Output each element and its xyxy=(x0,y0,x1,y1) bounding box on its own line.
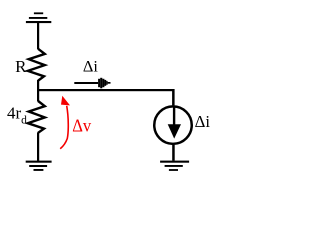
svg-text:Δi: Δi xyxy=(195,112,211,131)
annotation arc for Delta-v (red curved arrow body) xyxy=(60,106,68,149)
resistor 4rd xyxy=(28,101,45,133)
current source I1 internal arrow (stem) xyxy=(173,107,175,125)
svg-text:4rd: 4rd xyxy=(7,103,27,126)
wire: current source bottom to right ground xyxy=(172,145,175,161)
resistor R xyxy=(28,49,45,81)
current arrow Delta-i (shaft) xyxy=(74,82,98,84)
current arrow Delta-i (stepped head) xyxy=(98,78,110,89)
ground GND1 (top, at R upper terminal) xyxy=(26,12,51,23)
svg-text:R: R xyxy=(15,57,27,76)
wire: R bottom through node A to resistor 4rd xyxy=(37,80,39,101)
ground GND2 (bottom left) xyxy=(26,161,52,171)
wire: corner down from output wire to current source top xyxy=(172,89,175,105)
wire: 4rd bottom to left ground xyxy=(37,132,39,160)
wire: horizontal from node A to current source branch xyxy=(37,89,175,91)
current source I1 internal arrow (head, pointing down) xyxy=(168,124,181,138)
wire: top ground to resistor R xyxy=(37,23,39,49)
svg-text:Δi: Δi xyxy=(83,59,99,76)
svg-text:Δv: Δv xyxy=(72,116,91,136)
node A (junction of R, 4rd and output wire) xyxy=(37,89,39,91)
ground GND3 (below current source) xyxy=(160,161,189,171)
current source I1 (circle) xyxy=(154,106,192,144)
annotation arrowhead for Delta-v (red, pointing up-left) xyxy=(61,96,70,106)
